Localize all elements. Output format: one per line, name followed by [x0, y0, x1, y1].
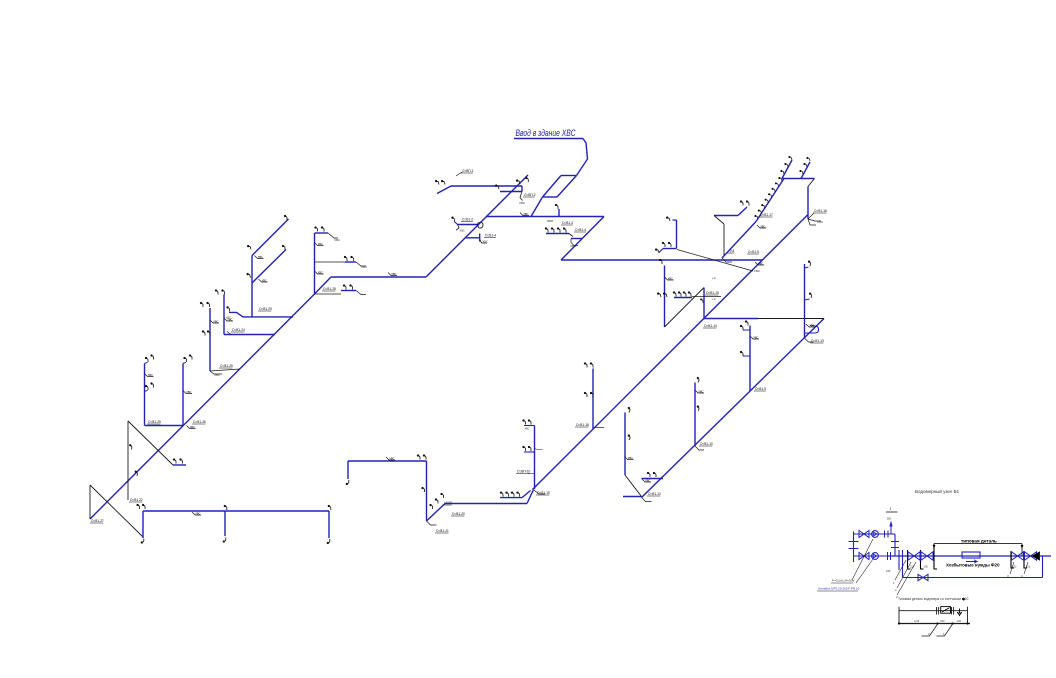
- svg-text:+0: +0: [712, 276, 716, 280]
- svg-text:ХВС: ХВС: [758, 261, 763, 265]
- horizontal y=503.5: [445, 503, 527, 505]
- riser St.V1-10 x=695: [694, 383, 696, 447]
- svg-text:Ст.ВП-10: Ст.ВП-10: [517, 470, 531, 474]
- riser St.V1-24 x=224: [223, 295, 225, 335]
- leader to XVS label: [677, 250, 753, 272]
- faucet pair end of break diagonal: [173, 464, 186, 466]
- leaders to labels below right valves: [1010, 562, 1028, 574]
- svg-text:ХВС: ХВС: [460, 229, 465, 233]
- main detail line: [887, 555, 1051, 557]
- riser with arrow to section mark 1: [890, 527, 892, 535]
- curl symbol on diagonal: [478, 222, 484, 228]
- svg-text:ХВС: ХВС: [318, 242, 323, 246]
- svg-text:ХВС: ХВС: [628, 456, 633, 460]
- riser St.V1-9 x=750: [749, 326, 751, 392]
- four-faucet row St.V1-4: [546, 233, 569, 235]
- flange ticks after pump: [887, 552, 889, 560]
- H3 branch at x=722-724: [714, 215, 738, 217]
- svg-text:Ст.В1-17: Ст.В1-17: [760, 213, 773, 217]
- riser x=144 with faucets: [144, 364, 146, 426]
- svg-text:ХВС: ХВС: [262, 278, 267, 282]
- svg-text:Ст.В1-21: Ст.В1-21: [436, 529, 449, 533]
- entry pipe from title: [577, 139, 588, 176]
- break triangle bottom-left: [89, 485, 91, 519]
- dimension bracket with label tipovaya detal: [934, 543, 1022, 545]
- svg-text:ХВС: ХВС: [525, 428, 530, 431]
- long diagonal main 2: [642, 319, 825, 498]
- svg-text:Ст.В1-5: Ст.В1-5: [748, 250, 759, 254]
- svg-text:типовая деталь: типовая деталь: [961, 539, 997, 544]
- stub riser St.V1-3 on H2: [558, 209, 560, 217]
- pump group left manifold: [853, 532, 855, 563]
- long diagonal main B: [533, 215, 809, 490]
- svg-text:ХВС: ХВС: [754, 269, 761, 273]
- long left diagonal main G: [90, 294, 315, 519]
- main horizontal H3: [561, 259, 763, 261]
- svg-text:Ст.В1-27: Ст.В1-27: [91, 519, 104, 523]
- riser St.V1-26 x=183: [182, 364, 184, 426]
- svg-text:ХВС: ХВС: [753, 335, 758, 339]
- drop middle: [224, 511, 226, 536]
- pump labels with leaders: [852, 539, 873, 583]
- leaders to 3 and 1: [922, 624, 938, 636]
- diagonal branch E with faucet: [252, 219, 289, 256]
- lower-center horizontal y=461: [348, 460, 427, 462]
- svg-text:Ст.ВП-2: Ст.ВП-2: [524, 193, 536, 197]
- leaders to labels 1 2: [895, 560, 916, 595]
- branch St.V1-2 on diagonal: [458, 224, 479, 226]
- black stub below junction: [127, 481, 129, 500]
- riser St.V1 x=210: [209, 308, 211, 371]
- branch St.V1-28 at riser bottom: [315, 293, 342, 295]
- svg-text:Р=0,5л/с;Н=10м: Р=0,5л/с;Н=10м: [832, 579, 854, 583]
- svg-text:Водомерный узел В1: Водомерный узел В1: [915, 488, 960, 494]
- svg-text:130: 130: [924, 565, 929, 569]
- bottom-left horizontal main: [143, 510, 329, 512]
- meter box symbol: [941, 607, 951, 614]
- svg-text:Ст.В1-25: Ст.В1-25: [220, 364, 233, 368]
- svg-text:ХВС: ХВС: [483, 240, 488, 244]
- corner vertical joining branches: [894, 534, 896, 556]
- main diagonal to upper-left branch: [426, 175, 528, 277]
- fitting cluster with valves and black flanges: [908, 550, 911, 569]
- drop left with faucets: [142, 511, 144, 538]
- svg-text:Ст.В1-4: Ст.В1-4: [485, 234, 496, 238]
- faucet row on branch y=497.6: [500, 497, 522, 499]
- svg-text:Ст.В1-29: Ст.В1-29: [259, 307, 272, 311]
- flange ticks around meter box: [936, 607, 938, 615]
- svg-text:Ст.В1-14: Ст.В1-14: [704, 324, 717, 328]
- svg-text:Ст.В1-18: Ст.В1-18: [576, 423, 589, 427]
- riser St.V1-13 x=804 with loop: [804, 264, 806, 338]
- svg-text:ХВС: ХВС: [817, 220, 824, 224]
- svg-text:Ст.В1-12: Ст.В1-12: [648, 492, 661, 496]
- svg-text:Ст.В1-19: Ст.В1-19: [537, 491, 550, 495]
- junction at (704,319) to black horizontal: [704, 318, 758, 320]
- left drop with faucet: [347, 461, 349, 479]
- expansion loop: [805, 326, 819, 333]
- main horizontal H2: [486, 216, 604, 218]
- branch St.VP-2 upper-left of main: [451, 185, 522, 187]
- svg-text:Ст.В1-25: Ст.В1-25: [148, 420, 161, 424]
- svg-text:Ст.ВП-1: Ст.ВП-1: [462, 169, 474, 173]
- upper pump branch: [854, 533, 896, 535]
- svg-text:Ст.В1-28: Ст.В1-28: [323, 287, 336, 291]
- svg-text:ХВС: ХВС: [760, 224, 765, 228]
- vertical x=704 with 4-faucet row: [703, 288, 705, 320]
- svg-text:Ст.В1-10: Ст.В1-10: [700, 442, 713, 446]
- svg-text:ХВС: ХВС: [361, 265, 368, 269]
- svg-text:ХВС: ХВС: [519, 201, 526, 205]
- riser group St.V1 left-top x=314: [314, 233, 316, 294]
- corner diagonal to riser B1 group: [315, 277, 332, 294]
- faucet pair near right corner: [417, 454, 420, 459]
- diagonal branch F with faucet: [252, 250, 286, 284]
- branch St.V1-4 stub lower: [465, 237, 479, 239]
- svg-text:ХВС: ХВС: [258, 255, 263, 259]
- svg-text:150: 150: [886, 569, 891, 573]
- svg-text:ХВС: ХВС: [148, 373, 153, 377]
- svg-text:Ст.В1-13: Ст.В1-13: [811, 339, 824, 343]
- riser group at x=625 with jog to diagonal: [624, 413, 626, 476]
- svg-text:150: 150: [887, 517, 892, 521]
- svg-text:Ст.В1-3: Ст.В1-3: [562, 221, 573, 225]
- svg-text:Ст.В1-26: Ст.В1-26: [193, 420, 206, 424]
- svg-text:Ст.В1-2: Ст.В1-2: [462, 218, 473, 222]
- riser x=427 down: [426, 461, 428, 521]
- branch to diagonal at y=334: [224, 334, 275, 336]
- bypass line: [1042, 556, 1044, 578]
- svg-text:145: 145: [957, 619, 962, 623]
- stub riser x=676 with faucet cluster: [676, 220, 678, 249]
- detail line drawing top line: [899, 610, 968, 612]
- black branch at riser bottom: [210, 369, 240, 371]
- svg-text:Grundfos UPS 20-100 F PN 10: Grundfos UPS 20-100 F PN 10: [818, 587, 860, 591]
- svg-text:Ст.В1-9: Ст.В1-9: [755, 387, 766, 391]
- svg-text:Хозбытовые нужды Ф20: Хозбытовые нужды Ф20: [946, 563, 1000, 568]
- jog diagonal with fixtures to y=504: [427, 504, 446, 522]
- water meter rectangle: [962, 552, 980, 558]
- sleeve parallelogram on entry pipe: [561, 175, 577, 177]
- svg-text:ХВС: ХВС: [523, 212, 528, 216]
- riser St.VP-10 x=535: [534, 426, 536, 490]
- svg-text:Ст.В1-20: Ст.В1-20: [452, 512, 465, 516]
- diagonal up to riser junction: [527, 490, 534, 504]
- riser St.V1-26b x=252: [251, 256, 253, 318]
- svg-text:ХВС: ХВС: [334, 238, 341, 242]
- svg-text:340: 340: [940, 619, 945, 623]
- branch horizontal to riser x=144: [145, 425, 184, 427]
- svg-text:ХВС: ХВС: [391, 272, 396, 276]
- main horizontal H1: [331, 276, 426, 278]
- faucet at top of diagonal: [525, 177, 528, 182]
- black diagonal from riser bottom to x=704: [665, 288, 705, 328]
- svg-text:Типовая деталь водомера со сче: Типовая деталь водомера со счетчиком ф20: [898, 597, 968, 601]
- svg-text:ХВС: ХВС: [213, 319, 218, 323]
- main Z diagonal: [561, 217, 604, 261]
- svg-text:Ст.В1-4: Ст.В1-4: [575, 228, 586, 232]
- svg-text:ХВС: ХВС: [186, 390, 191, 394]
- label St.V1-5 near H3 end: [747, 250, 759, 254]
- branch y=477 with faucet pair: [642, 478, 664, 480]
- K junction ticks at bottom of riser x=808: [808, 213, 821, 225]
- svg-text:Ст.В1-22: Ст.В1-22: [130, 498, 143, 502]
- drop right: [328, 511, 330, 538]
- svg-text:ХВС: ХВС: [389, 456, 394, 460]
- svg-text:Ст.В1-16: Ст.В1-16: [814, 209, 827, 213]
- faucet row diagonal D upper: [756, 179, 784, 222]
- svg-text:4,25: 4,25: [914, 619, 920, 623]
- riser group x=625 left of B — stub riser x=665: [664, 266, 666, 328]
- svg-text:Ввод в здание ХВС: Ввод в здание ХВС: [516, 128, 576, 138]
- svg-text:ХВС: ХВС: [809, 323, 814, 327]
- svg-text:ХВС: ХВС: [195, 511, 200, 515]
- lower pump branch (start of main): [854, 555, 888, 557]
- entry pipe to main: [531, 197, 543, 217]
- dimension line with dots: [899, 623, 970, 625]
- diagonal D lower part from H3: [722, 222, 756, 259]
- arrow down symbol: [958, 609, 962, 616]
- svg-text:ХВС: ХВС: [318, 270, 323, 274]
- svg-text:Ст.В1-15: Ст.В1-15: [706, 291, 719, 295]
- top-right riser group x=808: [782, 178, 815, 180]
- svg-text:ХВС: ХВС: [570, 244, 577, 248]
- riser St.V1-18 x=593: [592, 369, 594, 430]
- svg-text:ХВС: ХВС: [668, 276, 673, 280]
- svg-text:Ст.В1-24: Ст.В1-24: [232, 328, 245, 332]
- svg-text:+0: +0: [712, 297, 716, 301]
- bottom branch of riser x=252: [229, 312, 252, 317]
- svg-text:ХВС: ХВС: [214, 373, 221, 377]
- right valve pair with check valve: [1011, 551, 1014, 568]
- right vertical: [967, 607, 969, 624]
- faucet diagonal rows above top horizontal: [782, 160, 792, 179]
- riser x=128 with break: [127, 421, 129, 481]
- svg-text:ХВС: ХВС: [698, 389, 703, 393]
- svg-text:ХВС: ХВС: [190, 425, 195, 429]
- svg-text:ХВС: ХВС: [227, 317, 232, 321]
